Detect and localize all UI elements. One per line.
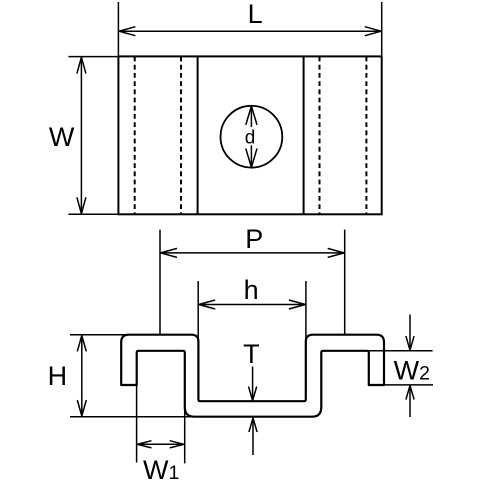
dimension W2 lower arrow pointing up <box>406 386 414 418</box>
svg-text:T: T <box>243 339 260 369</box>
dimension L extension line right <box>381 2 383 56</box>
dimension L line with arrows <box>119 27 381 36</box>
svg-text:L: L <box>248 0 263 29</box>
dimension H line with arrows <box>77 335 86 416</box>
dimension H extension line bottom <box>70 416 192 418</box>
top view hidden line 1 <box>134 57 136 215</box>
svg-text:P: P <box>245 224 263 254</box>
dimension T upper arrow pointing down <box>249 367 257 401</box>
dimension h extension line left <box>197 281 199 348</box>
svg-text:W: W <box>49 122 75 152</box>
dimension W1 extension line right <box>184 406 186 463</box>
svg-text:H: H <box>48 361 68 391</box>
hole circle <box>221 106 283 168</box>
top view hidden line 2 <box>180 57 182 215</box>
dimension W2 upper arrow pointing down <box>406 315 414 351</box>
dimension P line with arrows <box>161 248 345 257</box>
dimension W1 line with arrows <box>137 441 184 448</box>
dimension W2 extension line bottom <box>385 384 433 386</box>
dimension h extension line right <box>305 281 307 348</box>
dimension W1 extension line left <box>136 386 138 463</box>
dimension L extension line left <box>117 2 119 56</box>
top view hidden line 4 <box>365 57 367 215</box>
top view visible edge line right (U inner wall) <box>303 57 305 215</box>
dimension T lower arrow pointing up <box>249 418 257 455</box>
svg-text:d: d <box>245 128 256 149</box>
dimension h line with arrows <box>199 300 305 309</box>
svg-text:h: h <box>244 275 259 305</box>
dimension W2 extension line top <box>364 350 433 352</box>
top view body rectangle <box>118 56 381 214</box>
dimension H extension line top <box>70 334 128 336</box>
dimension d arrow upper segment <box>246 106 257 127</box>
dimension P extension line right <box>344 230 346 334</box>
top view visible edge line left (U inner wall) <box>197 57 199 215</box>
dimension d arrow lower segment <box>246 145 257 167</box>
dimension W extension line bottom <box>68 213 117 215</box>
dimension W line with arrows <box>77 57 86 214</box>
top view hidden line 3 <box>319 57 321 215</box>
dimension P extension line left <box>159 230 161 334</box>
dimension W extension line top <box>68 56 117 58</box>
cross-section profile outline <box>121 335 384 417</box>
